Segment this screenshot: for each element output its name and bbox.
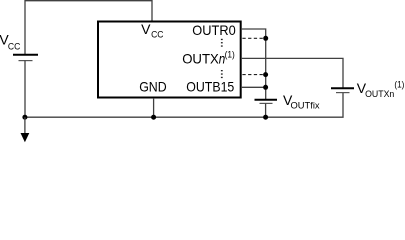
battery VCC (left) (13, 55, 38, 61)
svg-text:OUTX: OUTX (182, 51, 219, 67)
wire: VCC top rail from left battery up across to VCC pin (25, 1, 152, 54)
node: junction dot left rail / bus (22, 115, 27, 120)
ellipsis dots lower (221, 70, 223, 78)
wire: VOUTfix bottom to bus (265, 103, 267, 117)
pin label OUTXn(1) (182, 49, 235, 66)
label VCC (left) (0, 32, 21, 52)
wire: OUTR0 to fixed-output node (241, 29, 266, 100)
wire: dashed upper (other R outputs) (241, 37, 266, 39)
svg-text:(1): (1) (225, 49, 235, 59)
svg-text:OUTR0: OUTR0 (192, 22, 236, 38)
label VOUTfix (283, 92, 320, 111)
node: dot dashed lower (263, 72, 268, 77)
IC box U1 (98, 22, 241, 98)
node: dot dashed upper (263, 36, 268, 41)
node: dot VOUTfix / bus (263, 115, 268, 120)
svg-text:V: V (141, 21, 151, 37)
ellipsis dots upper (221, 39, 223, 47)
wire: OUTB15 to node (241, 86, 266, 88)
wire: dashed lower (other B outputs) (241, 74, 266, 76)
svg-text:OUTB15: OUTB15 (186, 79, 234, 95)
pin label VCC (in box) (141, 21, 164, 39)
svg-text:CC: CC (151, 30, 164, 40)
node: dot GND / bus (151, 115, 156, 120)
ground arrow (21, 117, 30, 142)
wire: GND pin to bus (153, 98, 155, 117)
svg-text:CC: CC (8, 42, 21, 52)
wire: left rail battery to ground bus (24, 61, 26, 118)
wire: ground bus (25, 93, 343, 118)
svg-text:OUTXn: OUTXn (365, 89, 394, 99)
battery VOUTfix (255, 100, 278, 104)
label VOUTXn(1) (357, 80, 405, 100)
node: dot OUTB15 (263, 85, 268, 90)
svg-text:OUTfix: OUTfix (291, 101, 320, 111)
svg-text:(1): (1) (394, 80, 404, 90)
battery VOUTXn (331, 88, 354, 92)
svg-text:GND: GND (139, 79, 167, 95)
wire: OUTXn to VOUTXn battery (241, 58, 343, 88)
